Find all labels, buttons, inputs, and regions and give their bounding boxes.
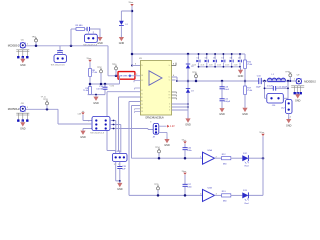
jumper J12 to ground — [286, 100, 293, 114]
capacitor C12 100pF — [220, 99, 225, 101]
svg-text:DRV134UA/135UA: DRV134UA/135UA — [146, 116, 165, 119]
node junction ladder top 2 — [206, 53, 208, 55]
wire pullup vertical — [248, 136, 263, 195]
svg-text:TP16: TP16 — [192, 72, 196, 74]
op-amp triangle inside U1 — [149, 71, 162, 85]
svg-text:4148: 4148 — [225, 65, 229, 67]
diode D9 ladder — [239, 54, 241, 67]
wire J12 to ground — [288, 114, 290, 119]
node junction TP10 — [115, 75, 118, 78]
svg-text:V+: V+ — [169, 65, 171, 67]
node junction RC loop — [70, 45, 73, 48]
svg-text:O+: O+ — [168, 77, 170, 79]
node junction ladder top 6 — [239, 53, 241, 55]
svg-text:4148: 4148 — [200, 65, 204, 67]
svg-text:N1: N1 — [141, 104, 143, 106]
svg-text:G: G — [169, 107, 170, 109]
svg-text:100n: 100n — [187, 150, 192, 152]
node junction D1 branch — [131, 10, 134, 13]
svg-text:VCM: VCM — [110, 86, 115, 88]
svg-text:GND: GND — [286, 125, 292, 128]
node junction FL3 out1 — [113, 120, 115, 122]
wire flag to C16 — [184, 144, 186, 148]
node junction TP12 — [100, 83, 103, 86]
svg-text:B2: B2 — [141, 101, 143, 103]
wire R9 bottom rail — [88, 89, 105, 94]
svg-text:GND: GND — [80, 136, 86, 139]
svg-text:D6: D6 — [213, 57, 215, 59]
svg-text:4148: 4148 — [209, 65, 213, 67]
svg-text:TDK 232-07-G-S: TDK 232-07-G-S — [51, 64, 66, 66]
power flag +5V top — [130, 4, 133, 6]
wire C5 to loop ground — [90, 29, 100, 37]
svg-text:0.47uF: 0.47uF — [96, 88, 103, 90]
node junction ladder bottom 3 — [214, 66, 216, 68]
wire flag to C17 — [184, 175, 186, 184]
jumper J9 3pin — [112, 153, 127, 161]
svg-text:R3 480: R3 480 — [76, 25, 84, 27]
svg-text:IN: IN — [141, 65, 142, 67]
ground below C9 shield — [297, 93, 299, 95]
node junction output bus start — [176, 80, 178, 82]
connector C8 input MCX50S-2 — [20, 106, 25, 111]
resistor R9 75.0k — [89, 87, 92, 95]
wire R13 to D13 — [231, 194, 243, 196]
node junction TP16 — [195, 80, 198, 83]
shield of C8 — [16, 113, 29, 115]
wire U1 pin8 stub with hook — [172, 63, 177, 66]
node junction TP11 on input — [35, 45, 38, 48]
wire TP15 stub — [157, 190, 159, 195]
svg-text:1: 1 — [114, 164, 115, 166]
node junction TP14 — [158, 157, 161, 160]
wire C13 branch — [221, 81, 223, 87]
wire FL3 out3 to J8 — [148, 129, 153, 130]
wire R12 to D12 — [231, 157, 243, 159]
svg-text:1: 1 — [200, 156, 201, 158]
svg-text:GND: GND — [238, 75, 244, 78]
svg-text:1: 1 — [294, 79, 295, 81]
node junction row1 pullup — [262, 157, 265, 160]
wire V+ bus over IC — [132, 53, 245, 55]
svg-text:MF_RES: MF_RES — [120, 76, 128, 78]
svg-text:4148: 4148 — [234, 65, 238, 67]
wire RC loop top — [71, 28, 76, 30]
wire U1 output pins to bus — [172, 77, 178, 81]
node junction ladder bottom 4 — [223, 66, 225, 68]
wire TP18 stub — [289, 77, 291, 81]
ground below D1 — [120, 35, 122, 37]
power flag +5V left divider — [88, 60, 91, 62]
node junction C14 branch — [104, 83, 107, 86]
diode D7 ladder — [222, 54, 224, 67]
node junction L1 left — [263, 80, 266, 83]
svg-text:GND: GND — [164, 144, 170, 147]
wire D1 to ground — [120, 26, 122, 37]
node junction ladder top 1 — [198, 53, 200, 55]
wire C16 to row1 — [184, 150, 186, 158]
svg-text:C15 100pF: C15 100pF — [277, 86, 287, 88]
inductor L1 1.5uH — [268, 78, 286, 81]
wire U5A out — [215, 157, 222, 159]
test point TP14 — [158, 150, 161, 153]
svg-text:MCX50S-2: MCX50S-2 — [8, 107, 20, 111]
wire C13 to C12 — [221, 89, 223, 99]
svg-text:TP15: TP15 — [154, 184, 158, 186]
diode D3 clamp lower — [186, 89, 190, 93]
wire C14 branch — [104, 84, 106, 87]
wire to U1 pin3 — [132, 65, 141, 67]
svg-text:D4: D4 — [197, 57, 199, 59]
svg-text:10nF: 10nF — [224, 89, 229, 91]
node junction TP15 — [157, 194, 160, 197]
svg-text:TP12: TP12 — [97, 67, 101, 69]
resistor R8 75.0k — [89, 69, 92, 77]
svg-text:TDK 242-07-G-S: TDK 242-07-G-S — [90, 133, 105, 135]
node junction ladder bottom 5 — [231, 66, 233, 68]
ground of RC loop — [99, 35, 101, 37]
node junction rung right — [287, 87, 289, 89]
node junction clamp at output bus — [187, 80, 190, 83]
diode D6 ladder — [214, 54, 216, 67]
node junction C13 branch — [221, 80, 224, 83]
wire R17 to ground — [244, 94, 246, 108]
node junction GND pin b — [187, 106, 189, 108]
wire U1 pin4 stub — [134, 81, 141, 83]
ground of bottom rail — [95, 95, 97, 97]
ground below R17 — [244, 106, 246, 108]
svg-text:S1: S1 — [141, 90, 143, 92]
zener diode D1 — [119, 21, 124, 25]
wire C8 pin1 route — [26, 109, 92, 124]
svg-text:10pF: 10pF — [256, 87, 262, 89]
svg-text:TP18: TP18 — [285, 72, 289, 74]
wire TP14 stub — [158, 153, 160, 158]
wire row2 — [129, 194, 203, 196]
wire U1 lower left pin stubs — [135, 87, 141, 89]
node junction bottom rail — [95, 94, 97, 96]
wire U1 mid right stubs — [172, 92, 177, 98]
node junction ladder top 4 — [222, 53, 224, 55]
wire divider top segment — [244, 54, 246, 60]
capacitor C10 10pF inline — [259, 78, 261, 84]
wire row1 — [131, 157, 202, 159]
wire C19 to ground — [119, 169, 121, 183]
wire TP16 stub — [195, 78, 197, 81]
svg-text:TP_A: TP_A — [41, 96, 47, 99]
wire U5B out — [215, 194, 222, 196]
wire output bus — [177, 80, 296, 82]
node junction L1 right — [287, 80, 290, 83]
svg-text:4148: 4148 — [192, 65, 196, 67]
svg-text:TP10: TP10 — [112, 64, 116, 66]
resistor R12 680 — [222, 157, 231, 160]
svg-text:MCX50S-2: MCX50S-2 — [8, 44, 20, 48]
capacitor C13 10nF — [220, 87, 225, 89]
diode D5 ladder — [206, 54, 208, 67]
node junction ladder top 5 — [231, 53, 233, 55]
svg-text:NC: NC — [141, 80, 143, 82]
wire TP11 stub — [35, 42, 37, 46]
test point TP18 — [289, 74, 292, 77]
svg-text:TP13: TP13 — [43, 99, 47, 101]
wire R8 to mid node — [90, 76, 120, 87]
node junction TP13 — [46, 108, 49, 111]
svg-text:Red: Red — [245, 166, 249, 168]
svg-text:2: 2 — [290, 117, 291, 119]
svg-text:1.5uH: 1.5uH — [267, 85, 273, 87]
test point TP10 — [115, 67, 118, 70]
svg-text:6: 6 — [173, 75, 174, 77]
wire ladder bottom rail — [199, 66, 241, 68]
net flag 1.2V red — [167, 125, 169, 128]
connector C6 input MCX50S-2 — [20, 43, 25, 48]
node junction rung left — [264, 87, 266, 89]
svg-text:D5: D5 — [205, 57, 207, 59]
wire C9 shield to ground — [297, 93, 299, 95]
svg-text:2: 2 — [118, 164, 119, 166]
filter FL2 TDK — [85, 34, 98, 42]
wire R16 to output bus — [244, 68, 246, 86]
wire U1 pin to filter vertical x107 — [107, 92, 141, 154]
wire U1 pin to J9 pin2 vertical — [119, 97, 141, 153]
ground below C19 — [119, 181, 121, 183]
resistor R3 480 — [76, 28, 85, 31]
test point TP15 — [157, 187, 160, 190]
wire J8 top pin to net 1.2V — [159, 125, 167, 127]
node junction TP18 — [289, 80, 291, 82]
red selection highlight around resistor R5 — [118, 72, 135, 80]
filter FL1 TDK on input wire — [59, 46, 61, 51]
wire parallel cap rung — [265, 87, 289, 89]
node junction C16 row1 — [184, 157, 187, 160]
capacitor C19 1uF — [117, 166, 122, 168]
wire ladder rail to ground — [240, 67, 242, 70]
buffer U5B — [203, 189, 215, 201]
buffer U5A — [203, 152, 215, 164]
power flag 1.2V bias — [81, 112, 84, 114]
ground below C6 shield — [22, 57, 24, 59]
svg-text:D7: D7 — [221, 57, 223, 59]
test point TP11 — [35, 39, 38, 42]
diode D4 ladder — [198, 54, 200, 67]
svg-text:GND: GND — [185, 124, 191, 127]
ground below C8 shield — [22, 121, 24, 123]
node junction left divider mid — [89, 83, 92, 86]
ground below U1 GND pins — [187, 117, 189, 119]
wire U1 pin2 input via highlighted resistor — [108, 46, 118, 76]
wire TP12 stub — [100, 73, 102, 84]
node junction ladder bottom 1 — [198, 66, 200, 68]
svg-text:8: 8 — [173, 64, 174, 66]
wire R3 to C5 — [84, 28, 87, 30]
wire J8 bottom pin to ground — [159, 132, 167, 138]
power flag +5V row1 — [183, 141, 186, 143]
svg-text:S2: S2 — [141, 94, 143, 96]
node junction FL3 out2 — [113, 124, 115, 126]
node junction ladder bottom 6 — [239, 66, 241, 68]
svg-text:TP11: TP11 — [32, 36, 36, 38]
node junction ladder bottom 2 — [206, 66, 208, 68]
capacitor C16 100n — [183, 148, 188, 150]
node junction clamp on V+ bus — [187, 53, 190, 56]
svg-text:GND: GND — [20, 127, 26, 130]
wire R5 to U1 pin2 — [132, 75, 141, 77]
wire C17 to row2 — [184, 187, 186, 196]
svg-text:U5A: U5A — [208, 149, 213, 152]
test point TP16 — [195, 75, 198, 78]
wire +5V down to bus and pin3 — [131, 6, 133, 66]
wire C8 shield to ground — [22, 121, 24, 123]
ground of diode ladder — [240, 68, 242, 70]
node junction pin3 wire corner — [131, 65, 133, 67]
svg-text:GND: GND — [117, 188, 123, 191]
resistor R16 75.0k — [244, 60, 247, 68]
svg-text:D9: D9 — [238, 57, 240, 59]
capacitor C5 — [87, 27, 89, 31]
svg-text:U5B: U5B — [208, 187, 213, 189]
svg-text:B1: B1 — [141, 97, 143, 99]
svg-text:N3: N3 — [141, 111, 143, 113]
svg-text:TP14: TP14 — [155, 147, 159, 149]
svg-text:GND: GND — [119, 42, 125, 45]
wire flag to R8 — [89, 62, 91, 68]
svg-text:3: 3 — [135, 64, 136, 66]
svg-text:GND: GND — [97, 42, 103, 45]
svg-text:FB: FB — [141, 75, 143, 77]
svg-text:2: 2 — [136, 74, 137, 76]
ground below J8 — [166, 137, 168, 139]
power flag +5V LED pullup — [261, 134, 264, 136]
node junction C17 row2 — [184, 194, 187, 197]
wire U1 pin to row1 vertical — [132, 106, 141, 159]
svg-text:MCX50S-2: MCX50S-2 — [304, 80, 316, 84]
capacitor C14 0.47uF — [103, 87, 108, 89]
svg-text:N2: N2 — [141, 108, 143, 110]
wire clamp vertical — [187, 54, 189, 118]
resistor R17 75.0k — [244, 86, 247, 94]
wire C6 pin1 to IC input — [26, 45, 108, 47]
wire D12 to pullup — [248, 157, 263, 159]
svg-text:GND: GND — [295, 99, 301, 102]
wire up to RC loop — [70, 29, 72, 46]
wire bias flag to FL3 pin1 — [83, 115, 92, 121]
wire FL3 out1 down to J9 — [115, 121, 117, 153]
LED D12 red — [242, 155, 248, 161]
svg-text:GND: GND — [20, 64, 26, 67]
svg-text:GND: GND — [93, 102, 99, 105]
LED D13 red — [242, 192, 248, 198]
svg-text:3: 3 — [200, 194, 201, 196]
ground below C12 — [221, 107, 223, 109]
node junction divider mid — [244, 80, 247, 83]
svg-text:4148: 4148 — [217, 65, 221, 67]
wire TP10 stub — [115, 70, 117, 76]
node junction GND pin a — [187, 103, 189, 105]
capacitor C15 100pF parallel — [273, 86, 275, 91]
wire FL3 right pins — [110, 121, 148, 129]
test point TP13 — [46, 102, 49, 105]
node junction C19 ground — [119, 180, 121, 182]
svg-text:GND: GND — [219, 113, 225, 116]
node junction ladder top 3 — [214, 53, 216, 55]
op-amp IC U1 — [141, 61, 172, 116]
wire branch to zener D1 — [121, 11, 132, 21]
wire U1 pin to row2 vertical — [129, 102, 141, 196]
wire FL3 pin3 to ground — [83, 129, 92, 131]
svg-text:G: G — [169, 104, 170, 106]
wire corner y84 up to pin2 node — [119, 76, 121, 84]
capacitor C17 100n — [183, 184, 188, 186]
node junction FL3 out3 — [113, 128, 115, 130]
node junction V+ bus — [131, 53, 134, 56]
svg-text:3: 3 — [150, 121, 151, 123]
resistor R13 680 — [222, 194, 231, 197]
diode D8 ladder — [231, 54, 233, 67]
wire TP13 stub — [46, 105, 48, 109]
jumper J10 across L1 — [267, 94, 284, 104]
wire C12 to ground — [221, 101, 223, 108]
wire J9 pin2 down to C19 — [119, 161, 121, 166]
svg-text:100pF: 100pF — [224, 101, 231, 103]
svg-text:D8: D8 — [230, 57, 232, 59]
ground below FL3 — [82, 129, 84, 131]
wire U1 GND pins to rail — [172, 104, 189, 110]
svg-text:Red: Red — [245, 203, 249, 205]
wire FL3 out2 down to J9 — [120, 125, 122, 153]
wire L1 parallel verticals — [265, 81, 289, 100]
jumper J8 3pin vertical — [153, 123, 159, 134]
wire C6 shield to ground — [22, 58, 24, 60]
power flag +5V row2 — [183, 173, 186, 175]
ground below J12 — [288, 117, 290, 119]
svg-text:G: G — [169, 110, 170, 112]
shield of C9 — [291, 86, 304, 88]
wire J9 pin1 down — [116, 161, 120, 181]
filter FL3 TDK 2x3 — [92, 117, 110, 131]
svg-text:TDK 232-07-G-S: TDK 232-07-G-S — [83, 44, 98, 46]
diode D2 clamp upper — [186, 65, 190, 69]
svg-text:GND: GND — [242, 113, 248, 116]
shield of C6 — [16, 50, 29, 52]
test point TP12 — [100, 70, 103, 73]
svg-text:1.2V: 1.2V — [170, 126, 175, 128]
svg-text:100n: 100n — [187, 187, 192, 189]
